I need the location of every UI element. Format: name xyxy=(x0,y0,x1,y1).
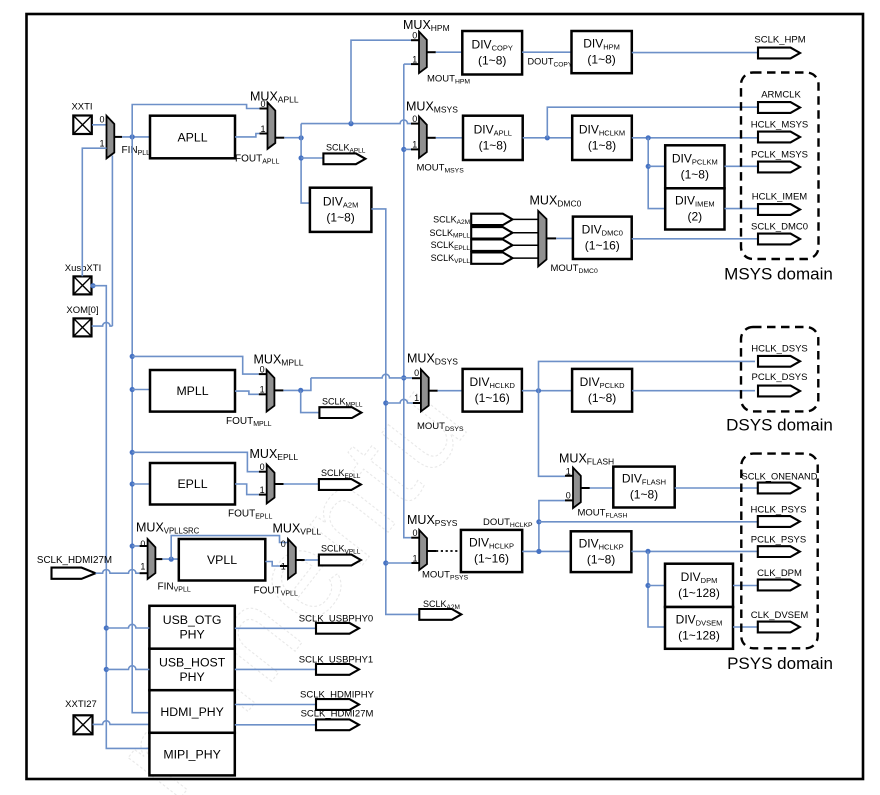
svg-text:DOUTHCLKP: DOUTHCLKP xyxy=(483,517,533,529)
svg-text:SCLK_USBPHY1: SCLK_USBPHY1 xyxy=(299,655,373,666)
svg-text:1: 1 xyxy=(412,553,417,563)
wire HDMI out 2 xyxy=(235,724,316,726)
flag SCLK_DMC0 xyxy=(758,234,800,245)
mux MUX_MSYS xyxy=(419,117,427,159)
node rail EPLLin xyxy=(130,481,135,486)
wire HCLK_DSYS xyxy=(539,361,756,390)
svg-text:SCLKA2M: SCLKA2M xyxy=(433,214,470,226)
svg-text:(2): (2) xyxy=(687,210,702,224)
svg-text:HCLK_IMEM: HCLK_IMEM xyxy=(752,192,808,203)
pad XOM0 xyxy=(74,318,92,336)
wire APLL net down xyxy=(301,138,310,203)
svg-text:(1~128): (1~128) xyxy=(678,629,720,643)
svg-text:MIPI_PHY: MIPI_PHY xyxy=(163,747,220,761)
wire to SCLK_MPLL flag xyxy=(301,390,320,412)
wire MUX_MPLL out xyxy=(274,389,283,391)
wire CLK_DPM xyxy=(733,585,758,587)
flag SCLK_HDMI27M input xyxy=(52,568,96,579)
svg-text:USB_HOST: USB_HOST xyxy=(159,655,226,669)
wire SCLK_VPLL to mux xyxy=(513,257,539,259)
flag SCLK_HPM xyxy=(758,48,800,59)
svg-text:SCLKVPLL: SCLKVPLL xyxy=(431,253,471,265)
svg-text:SCLKEPLL: SCLKEPLL xyxy=(431,240,471,252)
svg-text:MOUTMSYS: MOUTMSYS xyxy=(417,163,465,175)
wire APLL to MUX_HPM 0 xyxy=(351,40,411,123)
wire MUX_MSYS out xyxy=(427,137,436,139)
svg-text:0: 0 xyxy=(140,539,145,549)
wire APLL bypass top xyxy=(132,105,259,137)
block MIPI_PHY xyxy=(149,733,234,776)
flag SCLK_A2M input xyxy=(471,214,512,225)
wire SCLK_EPLL to mux xyxy=(513,244,539,246)
wire left rail xyxy=(132,137,149,713)
svg-text:MUXDMC0: MUXDMC0 xyxy=(530,194,582,209)
node rail USBOTG xyxy=(104,625,109,630)
wire USB_HOST out xyxy=(235,668,316,670)
svg-text:MUXPSYS: MUXPSYS xyxy=(407,513,458,528)
svg-text:SCLK_HDMIPHY: SCLK_HDMIPHY xyxy=(300,690,375,701)
node HCLKD out xyxy=(536,388,541,393)
svg-text:SCLK_HDMI27M: SCLK_HDMI27M xyxy=(301,709,374,720)
divider DIV_DMC0 xyxy=(573,217,632,259)
svg-text:MUXMSYS: MUXMSYS xyxy=(406,100,458,115)
wire DIV_APLL to DIV_HCLKM xyxy=(523,137,573,139)
wire to DIV_DPM xyxy=(648,585,665,587)
wire FIN stub xyxy=(114,136,122,138)
wire MUX_HPM out xyxy=(427,51,436,53)
flag SCLK_VPLL xyxy=(319,555,361,566)
wire rail to MUX_VPLLSRC 0 xyxy=(132,545,139,547)
wire MUX_PSYS out xyxy=(427,550,436,552)
flag HCLK_PSYS xyxy=(758,516,800,527)
wire EPLL bypass xyxy=(132,452,259,471)
wire XXTI27 to HDMI_PHY xyxy=(93,721,150,725)
wire rail to MUX_MSYS 1 xyxy=(404,148,411,150)
flag SCLK_EPLL xyxy=(319,479,361,490)
divider DIV_APLL xyxy=(463,116,523,160)
wire MUX_VPLLSRC out xyxy=(155,558,162,560)
decorative xyxy=(87,352,497,795)
wire ARMCLK xyxy=(547,107,758,138)
svg-text:MOUTDMC0: MOUTDMC0 xyxy=(551,263,598,275)
flag SCLK_APLL xyxy=(323,153,365,164)
divider DIV_PCLKD xyxy=(572,369,632,412)
node SCLK_APLL a xyxy=(299,135,304,140)
wire FIN node to APLL xyxy=(122,136,150,138)
block USB_HOST PHY xyxy=(149,649,234,691)
svg-text:0: 0 xyxy=(566,491,571,501)
wire CLK_DVSEM xyxy=(733,626,758,628)
wire PCLK_PSYS xyxy=(631,550,757,552)
svg-text:SCLK_HPM: SCLK_HPM xyxy=(754,35,805,46)
wire SCLK_DMC0 xyxy=(632,238,758,240)
mux MUX_DSYS xyxy=(421,369,429,411)
svg-text:0: 0 xyxy=(99,114,104,124)
wire MPLL out to mux 1 xyxy=(235,391,259,394)
flag SCLK_MPLL xyxy=(319,407,361,418)
svg-text:(1~16): (1~16) xyxy=(475,391,510,405)
node PCLKM branch xyxy=(646,164,651,169)
pad XXTI27 xyxy=(74,715,93,734)
wire rail to MUX_HPM 1 xyxy=(411,63,419,65)
svg-text:FOUTAPLL: FOUTAPLL xyxy=(235,154,279,166)
wire MUX_EPLL out xyxy=(275,483,284,485)
wire APLL out to mux 1 xyxy=(235,134,260,137)
node SCLK_MPLL xyxy=(298,388,303,393)
wire rail DSYS0 stub xyxy=(404,377,412,379)
svg-text:1: 1 xyxy=(99,139,104,149)
svg-text:1: 1 xyxy=(412,54,417,64)
flag SCLK_USBPHY1 xyxy=(316,664,359,675)
block VPLL xyxy=(179,539,265,581)
divider DIV_HCLKM xyxy=(572,116,632,160)
svg-text:(1~8): (1~8) xyxy=(681,167,709,181)
svg-text:0: 0 xyxy=(412,528,417,538)
wire A2M to MUX_DSYS 1 xyxy=(386,399,413,403)
node rail MPLL0 xyxy=(130,354,135,359)
flag HCLK_DSYS xyxy=(758,356,800,367)
node rail EPLL0 xyxy=(130,450,135,455)
domain box MSYS xyxy=(741,73,819,260)
domain box DSYS xyxy=(741,327,818,411)
node HCLKM branch xyxy=(646,135,651,140)
svg-text:SCLK_USBPHY0: SCLK_USBPHY0 xyxy=(299,614,373,625)
svg-text:1: 1 xyxy=(260,385,265,395)
svg-text:PSYS domain: PSYS domain xyxy=(727,654,833,673)
divider DIV_A2M xyxy=(310,188,372,232)
svg-text:(1~8): (1~8) xyxy=(478,53,506,67)
wire HCLKD to MUX_FLASH 1 xyxy=(539,391,566,477)
pad XusbXTI xyxy=(74,276,92,294)
flag HCLK_MSYS xyxy=(758,132,800,143)
flag PCLK_MSYS xyxy=(758,162,800,173)
wire to USB_OTG xyxy=(106,624,149,628)
wire DIV_HCLKP16 to DIV_HCLKP8 xyxy=(522,550,571,552)
wire USB_OTG out xyxy=(235,627,316,629)
svg-text:1: 1 xyxy=(260,485,265,495)
svg-text:SCLK_HDMI27M: SCLK_HDMI27M xyxy=(37,555,112,566)
pad XXTI xyxy=(73,116,92,135)
svg-text:(1~16): (1~16) xyxy=(474,552,509,566)
wire SCLK_ONENAND xyxy=(675,487,758,489)
svg-text:0: 0 xyxy=(260,462,265,472)
svg-text:HCLK_MSYS: HCLK_MSYS xyxy=(751,120,809,131)
svg-text:1: 1 xyxy=(566,467,571,477)
wire to USB_HOST xyxy=(106,666,149,670)
divider DIV_HCLKP 8 xyxy=(571,531,632,572)
mux MUX_MPLL xyxy=(267,370,275,412)
mux MUX_PSYS xyxy=(419,530,427,570)
svg-text:1: 1 xyxy=(412,140,417,150)
wire XusbXTI rail xyxy=(92,286,150,749)
wire MUX_VPLL out xyxy=(296,559,305,561)
svg-text:(1~16): (1~16) xyxy=(585,238,620,252)
domain box PSYS xyxy=(741,454,817,649)
node SCLK_APLL b xyxy=(299,155,304,160)
wire to SCLK_APLL flag xyxy=(301,157,323,159)
svg-text:PHY: PHY xyxy=(179,670,204,684)
divider DIV_IMEM xyxy=(665,188,724,229)
wire VPLL bypass xyxy=(171,536,288,560)
svg-text:MUXDSYS: MUXDSYS xyxy=(407,352,458,367)
wire to DIV_PCLKM xyxy=(648,165,665,167)
svg-text:CLK_DVSEM: CLK_DVSEM xyxy=(751,610,809,621)
flag SCLK_HDMIPHY xyxy=(316,699,359,710)
svg-text:1: 1 xyxy=(140,562,145,572)
node A2M to PSYS xyxy=(383,560,388,565)
wire XusbXTI to mux input 1 xyxy=(82,148,106,276)
wire DIV_HPM to SCLK_HPM xyxy=(632,52,758,54)
flag SCLK_ONENAND xyxy=(758,483,800,494)
svg-text:MUXVPLLSRC: MUXVPLLSRC xyxy=(136,521,200,536)
svg-text:1: 1 xyxy=(414,393,419,403)
divider DIV_HCLKD xyxy=(463,369,522,412)
flag ARMCLK xyxy=(758,102,800,113)
wire MUX_FLASH out xyxy=(581,487,590,489)
svg-text:HCLK_DSYS: HCLK_DSYS xyxy=(751,344,808,355)
wire SCLK_HDMI27M to mux 1 xyxy=(96,570,140,574)
wire EPLL out to mux 1 xyxy=(235,484,259,495)
mux MUX_HPM xyxy=(419,32,427,74)
divider DIV_PCLKM xyxy=(665,145,724,188)
svg-text:MUXMPLL: MUXMPLL xyxy=(254,353,304,368)
mux MUX_EPLL xyxy=(267,465,275,504)
wire SCLK_A2M to mux xyxy=(513,218,539,220)
mux MUX_VPLLSRC xyxy=(148,539,156,579)
divider DIV_COPY xyxy=(462,31,522,75)
svg-text:MSYS domain: MSYS domain xyxy=(724,265,833,284)
svg-text:MUXAPLL: MUXAPLL xyxy=(250,90,299,105)
node DOUT_HCLKP xyxy=(536,519,541,524)
svg-text:PCLK_MSYS: PCLK_MSYS xyxy=(751,150,808,161)
flag SCLK_HDMI27M out xyxy=(316,719,359,730)
node ARMCLK branch xyxy=(545,135,550,140)
node rail VPLLSRC0 xyxy=(130,543,135,548)
svg-text:(1~8): (1~8) xyxy=(588,138,616,152)
wire HCLK_MSYS xyxy=(632,137,758,139)
wire SCLK_MPLL to mux xyxy=(513,232,539,234)
wire HCLKM down xyxy=(648,138,665,209)
svg-text:(1~8): (1~8) xyxy=(587,53,615,67)
wire HCLKP8 down xyxy=(648,551,665,627)
block APLL xyxy=(150,116,235,159)
svg-text:DSYS domain: DSYS domain xyxy=(726,416,833,435)
svg-text:SCLKMPLL: SCLKMPLL xyxy=(430,228,471,240)
flag SCLK_VPLL input xyxy=(471,252,512,263)
mux MUX_APLL xyxy=(268,102,276,148)
svg-text:PCLK_PSYS: PCLK_PSYS xyxy=(751,535,806,546)
mux MUX_DMC0 xyxy=(538,211,546,267)
svg-text:(1~128): (1~128) xyxy=(678,586,720,600)
divider DIV_FLASH xyxy=(613,467,674,508)
wire A2M to MUX_PSYS 1 xyxy=(386,562,412,564)
node DPM branch xyxy=(645,583,650,588)
svg-text:DOUTCOPY: DOUTCOPY xyxy=(528,57,573,69)
divider DIV_DVSEM xyxy=(665,607,733,649)
svg-text:XOM[0]: XOM[0] xyxy=(66,305,98,316)
wire stub MSYS in0 xyxy=(411,123,419,125)
wire HCLK_IMEM xyxy=(725,208,759,210)
svg-text:MUXEPLL: MUXEPLL xyxy=(250,447,299,462)
wire MUX_DSYS out xyxy=(429,390,438,392)
block MPLL xyxy=(150,370,235,412)
flag HCLK_IMEM xyxy=(758,204,800,215)
svg-text:XXTI: XXTI xyxy=(71,102,92,113)
node FIN_VPLL xyxy=(169,557,174,562)
mux MUX_VPLL xyxy=(288,539,296,579)
wire MUX_DMC0 out xyxy=(547,237,557,239)
svg-text:XXTI27: XXTI27 xyxy=(65,699,97,710)
flag CLK_DVSEM xyxy=(758,622,800,633)
svg-text:PHY: PHY xyxy=(179,628,204,642)
svg-text:MOUTFLASH: MOUTFLASH xyxy=(578,508,628,520)
wire XOM select xyxy=(92,322,113,326)
svg-text:SCLK_DMC0: SCLK_DMC0 xyxy=(751,222,808,233)
node rail DSYS0 xyxy=(401,375,406,380)
mux MUX_FLASH xyxy=(573,468,581,509)
divider DIV_HCLKP 16 xyxy=(461,530,522,572)
svg-text:(1~8): (1~8) xyxy=(630,488,658,502)
flag SCLK_USBPHY0 xyxy=(316,623,359,634)
wire MUX_APLL out xyxy=(275,137,284,139)
wire VPLL out to mux 1 xyxy=(265,562,280,567)
wire APLL net up xyxy=(301,120,411,138)
node XusbXTI out xyxy=(90,283,95,288)
wire DOUT_HCLKP up xyxy=(539,501,565,552)
svg-text:FINPLL: FINPLL xyxy=(122,145,151,157)
wire A2M rail xyxy=(371,209,419,615)
node rail USBHOST xyxy=(104,667,109,672)
flag SCLK_EPLL input xyxy=(471,240,512,251)
node FIN_PLL xyxy=(130,134,135,139)
wire DIV_HCLKD to DIV_PCLKD xyxy=(522,390,572,392)
svg-text:ARMCLK: ARMCLK xyxy=(761,90,801,101)
wire HCLK_PSYS xyxy=(539,521,758,523)
svg-text:USB_OTG: USB_OTG xyxy=(163,613,222,627)
node rail MSYS1 xyxy=(401,147,406,152)
divider DIV_HPM xyxy=(572,31,632,73)
flag CLK_DPM xyxy=(758,580,800,591)
svg-text:MUXFLASH: MUXFLASH xyxy=(559,452,614,467)
node HCLKP16 out xyxy=(536,549,541,554)
svg-text:HDMI_PHY: HDMI_PHY xyxy=(160,705,224,719)
svg-text:PCLK_DSYS: PCLK_DSYS xyxy=(752,372,808,383)
svg-text:FINVPLL: FINVPLL xyxy=(158,582,191,594)
block EPLL xyxy=(150,463,235,505)
svg-text:EPLL: EPLL xyxy=(177,477,207,491)
svg-text:HCLK_PSYS: HCLK_PSYS xyxy=(751,505,807,516)
wire DIV_COPY to DIV_HPM xyxy=(522,51,571,53)
flag PCLK_PSYS xyxy=(758,546,800,557)
divider DIV_DPM xyxy=(665,564,733,607)
svg-text:0: 0 xyxy=(414,368,419,378)
svg-text:CLK_DPM: CLK_DPM xyxy=(757,568,802,579)
svg-text:0: 0 xyxy=(281,539,286,549)
wire rail to MPLL xyxy=(132,389,150,391)
svg-text:0: 0 xyxy=(412,114,417,124)
svg-text:APLL: APLL xyxy=(177,130,207,144)
svg-text:VPLL: VPLL xyxy=(207,553,237,567)
node APLL branch xyxy=(348,121,353,126)
svg-text:FOUTMPLL: FOUTMPLL xyxy=(226,416,272,428)
flag SCLK_A2M xyxy=(419,609,461,620)
wire XXTI to mux xyxy=(92,124,107,126)
svg-text:(1~8): (1~8) xyxy=(588,391,616,405)
wire PCLK_DSYS xyxy=(632,390,755,392)
svg-text:(1~8): (1~8) xyxy=(326,210,354,224)
svg-text:SCLK_ONENAND: SCLK_ONENAND xyxy=(742,472,818,482)
node HCLKP8 out xyxy=(645,549,650,554)
svg-text:(1~8): (1~8) xyxy=(587,552,615,566)
flag PCLK_DSYS xyxy=(758,386,800,397)
wire MPLL bypass xyxy=(132,356,259,374)
svg-text:(1~8): (1~8) xyxy=(479,138,507,152)
wire PCLK_MSYS xyxy=(725,165,759,167)
svg-text:1: 1 xyxy=(260,124,265,134)
node A2M to DSYS xyxy=(383,400,388,405)
block USB_OTG PHY xyxy=(149,606,234,649)
flag SCLK_MPLL input xyxy=(471,227,512,238)
svg-text:MUXHPM: MUXHPM xyxy=(403,18,450,33)
block HDMI_PHY xyxy=(149,690,234,733)
mux FIN_PLL select xyxy=(107,116,115,159)
svg-text:MPLL: MPLL xyxy=(176,384,208,398)
wire MPLL rail xyxy=(404,64,411,538)
wire HDMI out 1 xyxy=(235,704,316,706)
wire rail to EPLL xyxy=(132,483,150,485)
node rail MPLLin xyxy=(130,387,135,392)
